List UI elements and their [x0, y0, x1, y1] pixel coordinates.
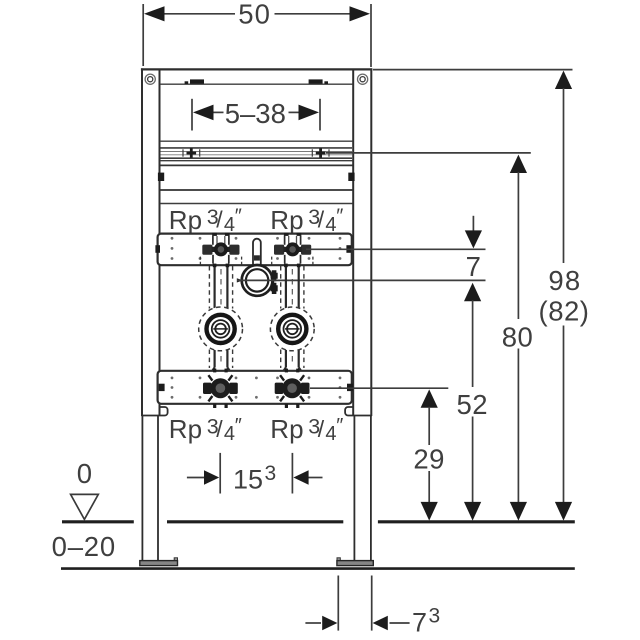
- dimension 5-38: [192, 99, 320, 131]
- label Rp 3/4 upper right: [270, 205, 343, 236]
- clamp bolt: [271, 270, 278, 294]
- svg-text:7: 7: [466, 251, 481, 282]
- svg-text:52: 52: [457, 389, 489, 420]
- wall anchor disc left: [199, 307, 243, 351]
- hanger tabs: [185, 79, 328, 84]
- label Rp 3/4 lower left: [169, 414, 242, 445]
- svg-text:5–38: 5–38: [225, 98, 286, 129]
- drain pipe clamp: [242, 265, 273, 296]
- svg-text:/: /: [318, 207, 325, 233]
- wall anchor disc right: [270, 307, 314, 351]
- svg-text:Rp: Rp: [270, 414, 303, 444]
- dimension 80: [502, 155, 534, 521]
- foot right: [337, 558, 373, 566]
- svg-text:80: 80: [502, 321, 534, 352]
- unfinished floor line (lower): [61, 567, 575, 570]
- svg-text:/: /: [216, 207, 223, 233]
- reference line from lower right fitting: [310, 387, 448, 389]
- svg-text:50: 50: [238, 0, 271, 30]
- upper fitting rail: [158, 234, 352, 266]
- svg-text:″: ″: [235, 206, 242, 228]
- dimension 7 (fitting offset): [465, 216, 482, 282]
- floor level triangle: [71, 494, 99, 519]
- supply pipe right (solid + dashed): [283, 266, 302, 372]
- lower fitting rail: [158, 371, 352, 404]
- svg-text:0: 0: [77, 458, 92, 489]
- dimension 50 (top width): [143, 4, 371, 67]
- label Rp 3/4 lower right: [270, 414, 343, 445]
- frame outer profile: [141, 68, 373, 416]
- svg-text:Rp: Rp: [169, 205, 202, 235]
- dimension 52: [457, 283, 489, 521]
- svg-text:29: 29: [413, 444, 445, 475]
- adjustable rail with screws: [160, 141, 353, 161]
- svg-text:″: ″: [336, 206, 343, 228]
- finished floor line (upper): [62, 520, 575, 523]
- water supply fitting upper left: [202, 233, 239, 264]
- svg-text:Rp: Rp: [169, 414, 202, 444]
- frame bottom cap left: [141, 407, 167, 416]
- svg-text:/: /: [318, 416, 325, 442]
- dimension 15 (tap hole spacing): [187, 453, 323, 494]
- clamp left tick: [237, 278, 243, 282]
- label Rp 3/4 upper left: [169, 205, 242, 236]
- svg-text:(82): (82): [539, 296, 590, 327]
- rail screw right: [312, 148, 329, 158]
- corner screw left: [145, 74, 155, 84]
- top reference line (98): [373, 69, 573, 71]
- rail reference line (80): [326, 152, 531, 154]
- svg-text:Rp: Rp: [270, 205, 303, 235]
- corner screw right: [358, 74, 368, 84]
- frame bottom cap right: [345, 407, 372, 416]
- leg left: [142, 416, 158, 561]
- supply pipe left (solid + dashed): [211, 266, 230, 372]
- svg-text:/: /: [216, 416, 223, 442]
- angle valve fitting lower right: [275, 369, 310, 408]
- svg-text:″: ″: [336, 415, 343, 437]
- svg-text:4: 4: [224, 423, 235, 445]
- svg-text:4: 4: [325, 423, 336, 445]
- water supply fitting upper right: [274, 233, 311, 264]
- svg-text:″: ″: [235, 415, 242, 437]
- drain pipe stub: [253, 239, 261, 268]
- dimension 98 (82): [539, 71, 590, 521]
- dimension 29: [413, 389, 445, 520]
- reference line from clamp: [237, 279, 486, 281]
- reference line from right fitting: [306, 248, 486, 250]
- svg-text:98: 98: [548, 265, 581, 296]
- rail screw left: [183, 148, 200, 158]
- leg right: [354, 416, 371, 561]
- crossbar traverse: [160, 165, 353, 190]
- dimension 7 (bottom wall offset): [305, 576, 409, 631]
- foot left: [140, 558, 178, 566]
- svg-text:0–20: 0–20: [52, 531, 116, 562]
- angle valve fitting lower left: [203, 369, 238, 408]
